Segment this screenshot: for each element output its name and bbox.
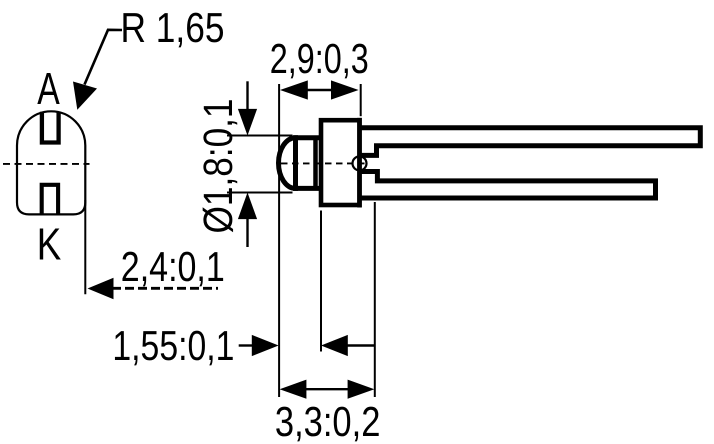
svg-text:2,4:0,1: 2,4:0,1: [121, 243, 225, 290]
dimension 3,3 left arrowhead: [280, 380, 307, 399]
cylinder bottom edge: [293, 186, 321, 191]
dimension 1,55 right-pointing arrow line: [239, 344, 253, 346]
dia 1,8 down arrowhead: [238, 109, 257, 136]
dia 1,8 bottom extension line: [227, 192, 293, 194]
lead exit circle: [353, 156, 367, 170]
svg-text:R 1,65: R 1,65: [121, 4, 225, 51]
svg-text:K: K: [37, 219, 62, 270]
dimension 2,9 line: [305, 89, 334, 91]
side view centerline: [281, 162, 368, 164]
cathode post (front view, bottom inverted U): [42, 185, 58, 215]
dimension 2,4:0,1 dashed line: [112, 287, 218, 290]
svg-text:1,55:0,1: 1,55:0,1: [112, 322, 234, 369]
cathode lead (bottom, short): [357, 172, 656, 199]
extension line lead step (x=374.8): [374, 202, 376, 397]
flange right edge over circle: [357, 118, 362, 208]
dimension 1,55 left-pointing arrow line: [346, 344, 375, 346]
cylinder top edge: [293, 135, 321, 140]
wire left extension line (dome tangent, x=279): [278, 84, 280, 397]
dia 1,8 up arrowhead: [238, 193, 257, 220]
svg-text:A: A: [37, 63, 60, 114]
extension line right of front view: [84, 200, 86, 294]
dome-cylinder junction line: [293, 135, 298, 190]
anode lead (top, long): [357, 128, 700, 156]
cylinder end line at flange: [313, 136, 318, 191]
dia 1,8 down arrow line: [246, 81, 248, 111]
dimension 3,3 right arrowhead: [348, 380, 375, 399]
dia 1,8 top extension line: [227, 135, 293, 137]
dimension 3,3 line: [305, 388, 349, 390]
epoxy dome (side view): [279, 138, 296, 189]
svg-text:3,3:0,2: 3,3:0,2: [275, 398, 381, 444]
leader arrowhead: [73, 82, 97, 110]
front view centerline: [3, 163, 90, 165]
svg-text:Ø1,8:0,1: Ø1,8:0,1: [195, 99, 241, 234]
dimension 2,9 left arrowhead: [280, 80, 308, 99]
dimension 1,55 right-pointing arrowhead: [252, 335, 279, 356]
leader line for R 1,65: [85, 30, 123, 85]
LED front view outline: [17, 111, 85, 214]
dimension 2,4:0,1 arrowhead: [88, 278, 114, 299]
dimension 1,55 left-pointing arrowhead: [321, 335, 348, 356]
flange (side view): [321, 120, 360, 205]
anode post (front view, top U): [42, 112, 59, 143]
extension line right for 2,9 dim: [360, 84, 362, 116]
dia 1,8 up arrow line: [246, 217, 248, 247]
extension line flange left (x=321): [320, 211, 322, 352]
dimension 2,9 right arrowhead: [331, 80, 359, 99]
svg-text:2,9:0,3: 2,9:0,3: [270, 35, 369, 82]
